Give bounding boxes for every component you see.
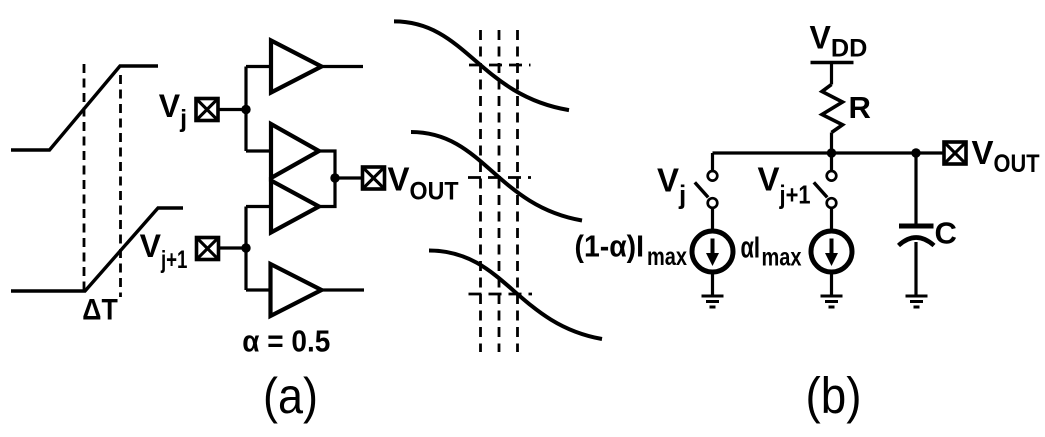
svg-text:Vj: Vj (657, 162, 686, 210)
svg-text:C: C (935, 216, 957, 251)
svg-text:VOUT: VOUT (972, 134, 1040, 178)
svg-text:Vj+1: Vj+1 (140, 228, 188, 274)
svg-text:(a): (a) (263, 368, 318, 424)
svg-text:(b): (b) (806, 367, 862, 424)
svg-text:VOUT: VOUT (388, 161, 459, 206)
svg-text:VDD: VDD (810, 20, 868, 63)
svg-text:Vj: Vj (159, 88, 187, 133)
svg-text:R: R (849, 90, 871, 125)
svg-text:Vj+1: Vj+1 (758, 161, 811, 210)
svg-text:ΔT: ΔT (82, 294, 118, 327)
svg-text:αImax: αImax (741, 230, 802, 272)
svg-text:α = 0.5: α = 0.5 (242, 324, 330, 359)
svg-text:(1-α)Imax: (1-α)Imax (575, 229, 688, 272)
